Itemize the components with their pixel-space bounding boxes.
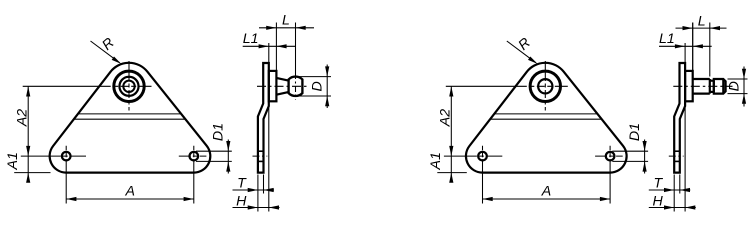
- svg-text:A1: A1: [5, 152, 21, 170]
- svg-text:D: D: [310, 81, 326, 91]
- svg-text:H: H: [236, 194, 247, 210]
- svg-text:A1: A1: [428, 152, 444, 170]
- svg-text:H: H: [652, 194, 663, 210]
- svg-text:D1: D1: [627, 123, 643, 141]
- svg-text:T: T: [653, 176, 663, 192]
- svg-text:L: L: [698, 14, 706, 30]
- svg-text:A: A: [124, 183, 134, 199]
- svg-text:D1: D1: [211, 123, 227, 141]
- svg-text:L1: L1: [243, 31, 259, 47]
- svg-text:L1: L1: [659, 31, 675, 47]
- svg-text:A2: A2: [14, 109, 30, 127]
- svg-text:L: L: [282, 13, 290, 29]
- svg-text:A: A: [541, 183, 551, 199]
- svg-text:A2: A2: [438, 109, 454, 127]
- svg-text:T: T: [237, 176, 247, 192]
- svg-text:D: D: [727, 81, 743, 91]
